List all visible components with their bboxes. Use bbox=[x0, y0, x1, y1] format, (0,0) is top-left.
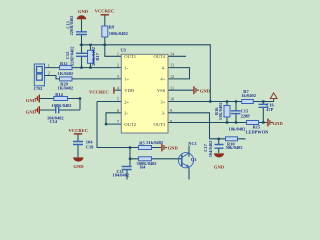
svg-text:R17: R17 bbox=[95, 52, 100, 60]
svg-text:50k/0402: 50k/0402 bbox=[226, 145, 243, 150]
svg-text:Q3: Q3 bbox=[191, 157, 197, 162]
svg-text:GND: GND bbox=[73, 164, 84, 169]
svg-text:10: 10 bbox=[170, 97, 174, 102]
svg-text:13: 13 bbox=[170, 63, 174, 68]
svg-text:GND: GND bbox=[26, 110, 37, 115]
svg-text:11: 11 bbox=[170, 85, 174, 90]
svg-text:OUT4: OUT4 bbox=[154, 54, 166, 59]
svg-text:47P: 47P bbox=[266, 107, 273, 112]
svg-text:51K/0402: 51K/0402 bbox=[218, 102, 223, 120]
svg-text:NC1: NC1 bbox=[188, 141, 197, 146]
svg-text:9: 9 bbox=[170, 108, 172, 113]
svg-text:5: 5 bbox=[117, 97, 119, 102]
svg-text:VCCREC: VCCREC bbox=[89, 90, 109, 95]
svg-text:1: 1 bbox=[117, 51, 119, 56]
svg-text:1K/0402: 1K/0402 bbox=[58, 85, 74, 90]
svg-text:U3: U3 bbox=[121, 48, 127, 53]
svg-text:R4: R4 bbox=[140, 165, 146, 170]
svg-text:100K/0402: 100K/0402 bbox=[52, 103, 72, 108]
svg-text:C19: C19 bbox=[86, 144, 94, 149]
svg-text:GND: GND bbox=[273, 121, 284, 126]
svg-text:1-: 1- bbox=[124, 65, 128, 70]
svg-text:220P/0402: 220P/0402 bbox=[69, 46, 74, 65]
svg-text:OUT3: OUT3 bbox=[154, 122, 166, 127]
svg-text:2+: 2+ bbox=[124, 99, 129, 104]
svg-text:VSS: VSS bbox=[157, 88, 166, 93]
svg-text:100k/0402: 100k/0402 bbox=[109, 31, 128, 36]
svg-text:R12: R12 bbox=[60, 61, 68, 66]
svg-text:220P: 220P bbox=[241, 114, 251, 119]
svg-text:R5: R5 bbox=[139, 140, 145, 145]
svg-text:VDD: VDD bbox=[124, 88, 135, 93]
svg-text:51k/0402: 51k/0402 bbox=[146, 140, 163, 145]
svg-text:1+: 1+ bbox=[124, 77, 129, 82]
svg-text:R9: R9 bbox=[109, 25, 115, 30]
svg-text:GND: GND bbox=[200, 89, 211, 94]
svg-text:220R/0402: 220R/0402 bbox=[69, 16, 74, 36]
svg-text:1k/0402: 1k/0402 bbox=[241, 93, 256, 98]
svg-text:2: 2 bbox=[48, 71, 50, 76]
svg-text:12: 12 bbox=[170, 74, 174, 79]
svg-text:3-: 3- bbox=[161, 111, 165, 116]
svg-text:6: 6 bbox=[117, 108, 119, 113]
svg-text:8: 8 bbox=[170, 119, 172, 124]
svg-text:7: 7 bbox=[117, 119, 119, 124]
svg-text:R14: R14 bbox=[55, 92, 63, 97]
svg-text:C14: C14 bbox=[50, 119, 58, 124]
svg-text:104/0402: 104/0402 bbox=[113, 173, 130, 178]
svg-text:GND: GND bbox=[214, 164, 225, 169]
svg-text:GND: GND bbox=[26, 98, 37, 103]
svg-text:2: 2 bbox=[117, 63, 119, 68]
svg-text:VCCREC: VCCREC bbox=[95, 8, 115, 13]
svg-text:VCCREC: VCCREC bbox=[68, 128, 88, 133]
svg-text:CN2: CN2 bbox=[34, 86, 43, 91]
svg-text:GND: GND bbox=[78, 9, 89, 14]
svg-text:4+: 4+ bbox=[160, 77, 165, 82]
svg-text:1: 1 bbox=[48, 63, 50, 68]
svg-text:GND: GND bbox=[168, 146, 179, 151]
svg-text:3+: 3+ bbox=[160, 99, 165, 104]
svg-text:OUT1: OUT1 bbox=[124, 54, 136, 59]
svg-text:104/0402: 104/0402 bbox=[208, 141, 213, 158]
svg-text:OUT2: OUT2 bbox=[124, 122, 136, 127]
svg-text:2-: 2- bbox=[124, 111, 128, 116]
svg-text:1K/0402: 1K/0402 bbox=[58, 71, 74, 76]
svg-text:4-: 4- bbox=[161, 65, 165, 70]
svg-text:3: 3 bbox=[117, 74, 119, 79]
svg-text:10k/0402: 10k/0402 bbox=[229, 127, 246, 132]
svg-text:LEDPWON: LEDPWON bbox=[246, 130, 270, 135]
